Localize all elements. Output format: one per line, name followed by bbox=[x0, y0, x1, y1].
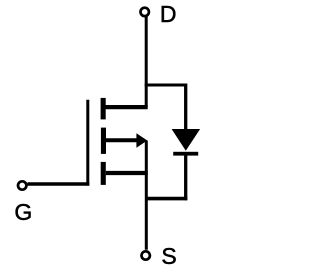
source lead bbox=[106, 171, 148, 175]
svg-text:G: G bbox=[14, 199, 32, 225]
transistor Q1 N-channel MOSFET bbox=[88, 98, 148, 186]
svg-text:S: S bbox=[161, 243, 176, 269]
terminal G bbox=[18, 181, 26, 189]
channel segment source bbox=[101, 162, 106, 185]
wire drain vertical bbox=[145, 17, 148, 108]
channel segment drain bbox=[101, 98, 106, 120]
body lead bbox=[106, 138, 138, 142]
wire gate lead bbox=[27, 182, 89, 185]
wire diode-to-source branch bbox=[146, 197, 187, 201]
drain lead bbox=[106, 105, 148, 109]
wire drain-to-diode branch bbox=[145, 84, 186, 87]
wire diode anode bbox=[184, 84, 187, 131]
svg-text:D: D bbox=[160, 1, 177, 27]
gate electrode bar bbox=[86, 100, 89, 186]
channel segment body bbox=[101, 128, 106, 154]
body arrow bbox=[136, 133, 147, 147]
wire source vertical bbox=[145, 141, 148, 250]
body diode cathode bar bbox=[173, 152, 198, 156]
body diode anode triangle bbox=[172, 129, 201, 151]
wire diode cathode bbox=[184, 156, 187, 201]
terminal D bbox=[141, 8, 149, 16]
terminal S bbox=[142, 251, 150, 259]
